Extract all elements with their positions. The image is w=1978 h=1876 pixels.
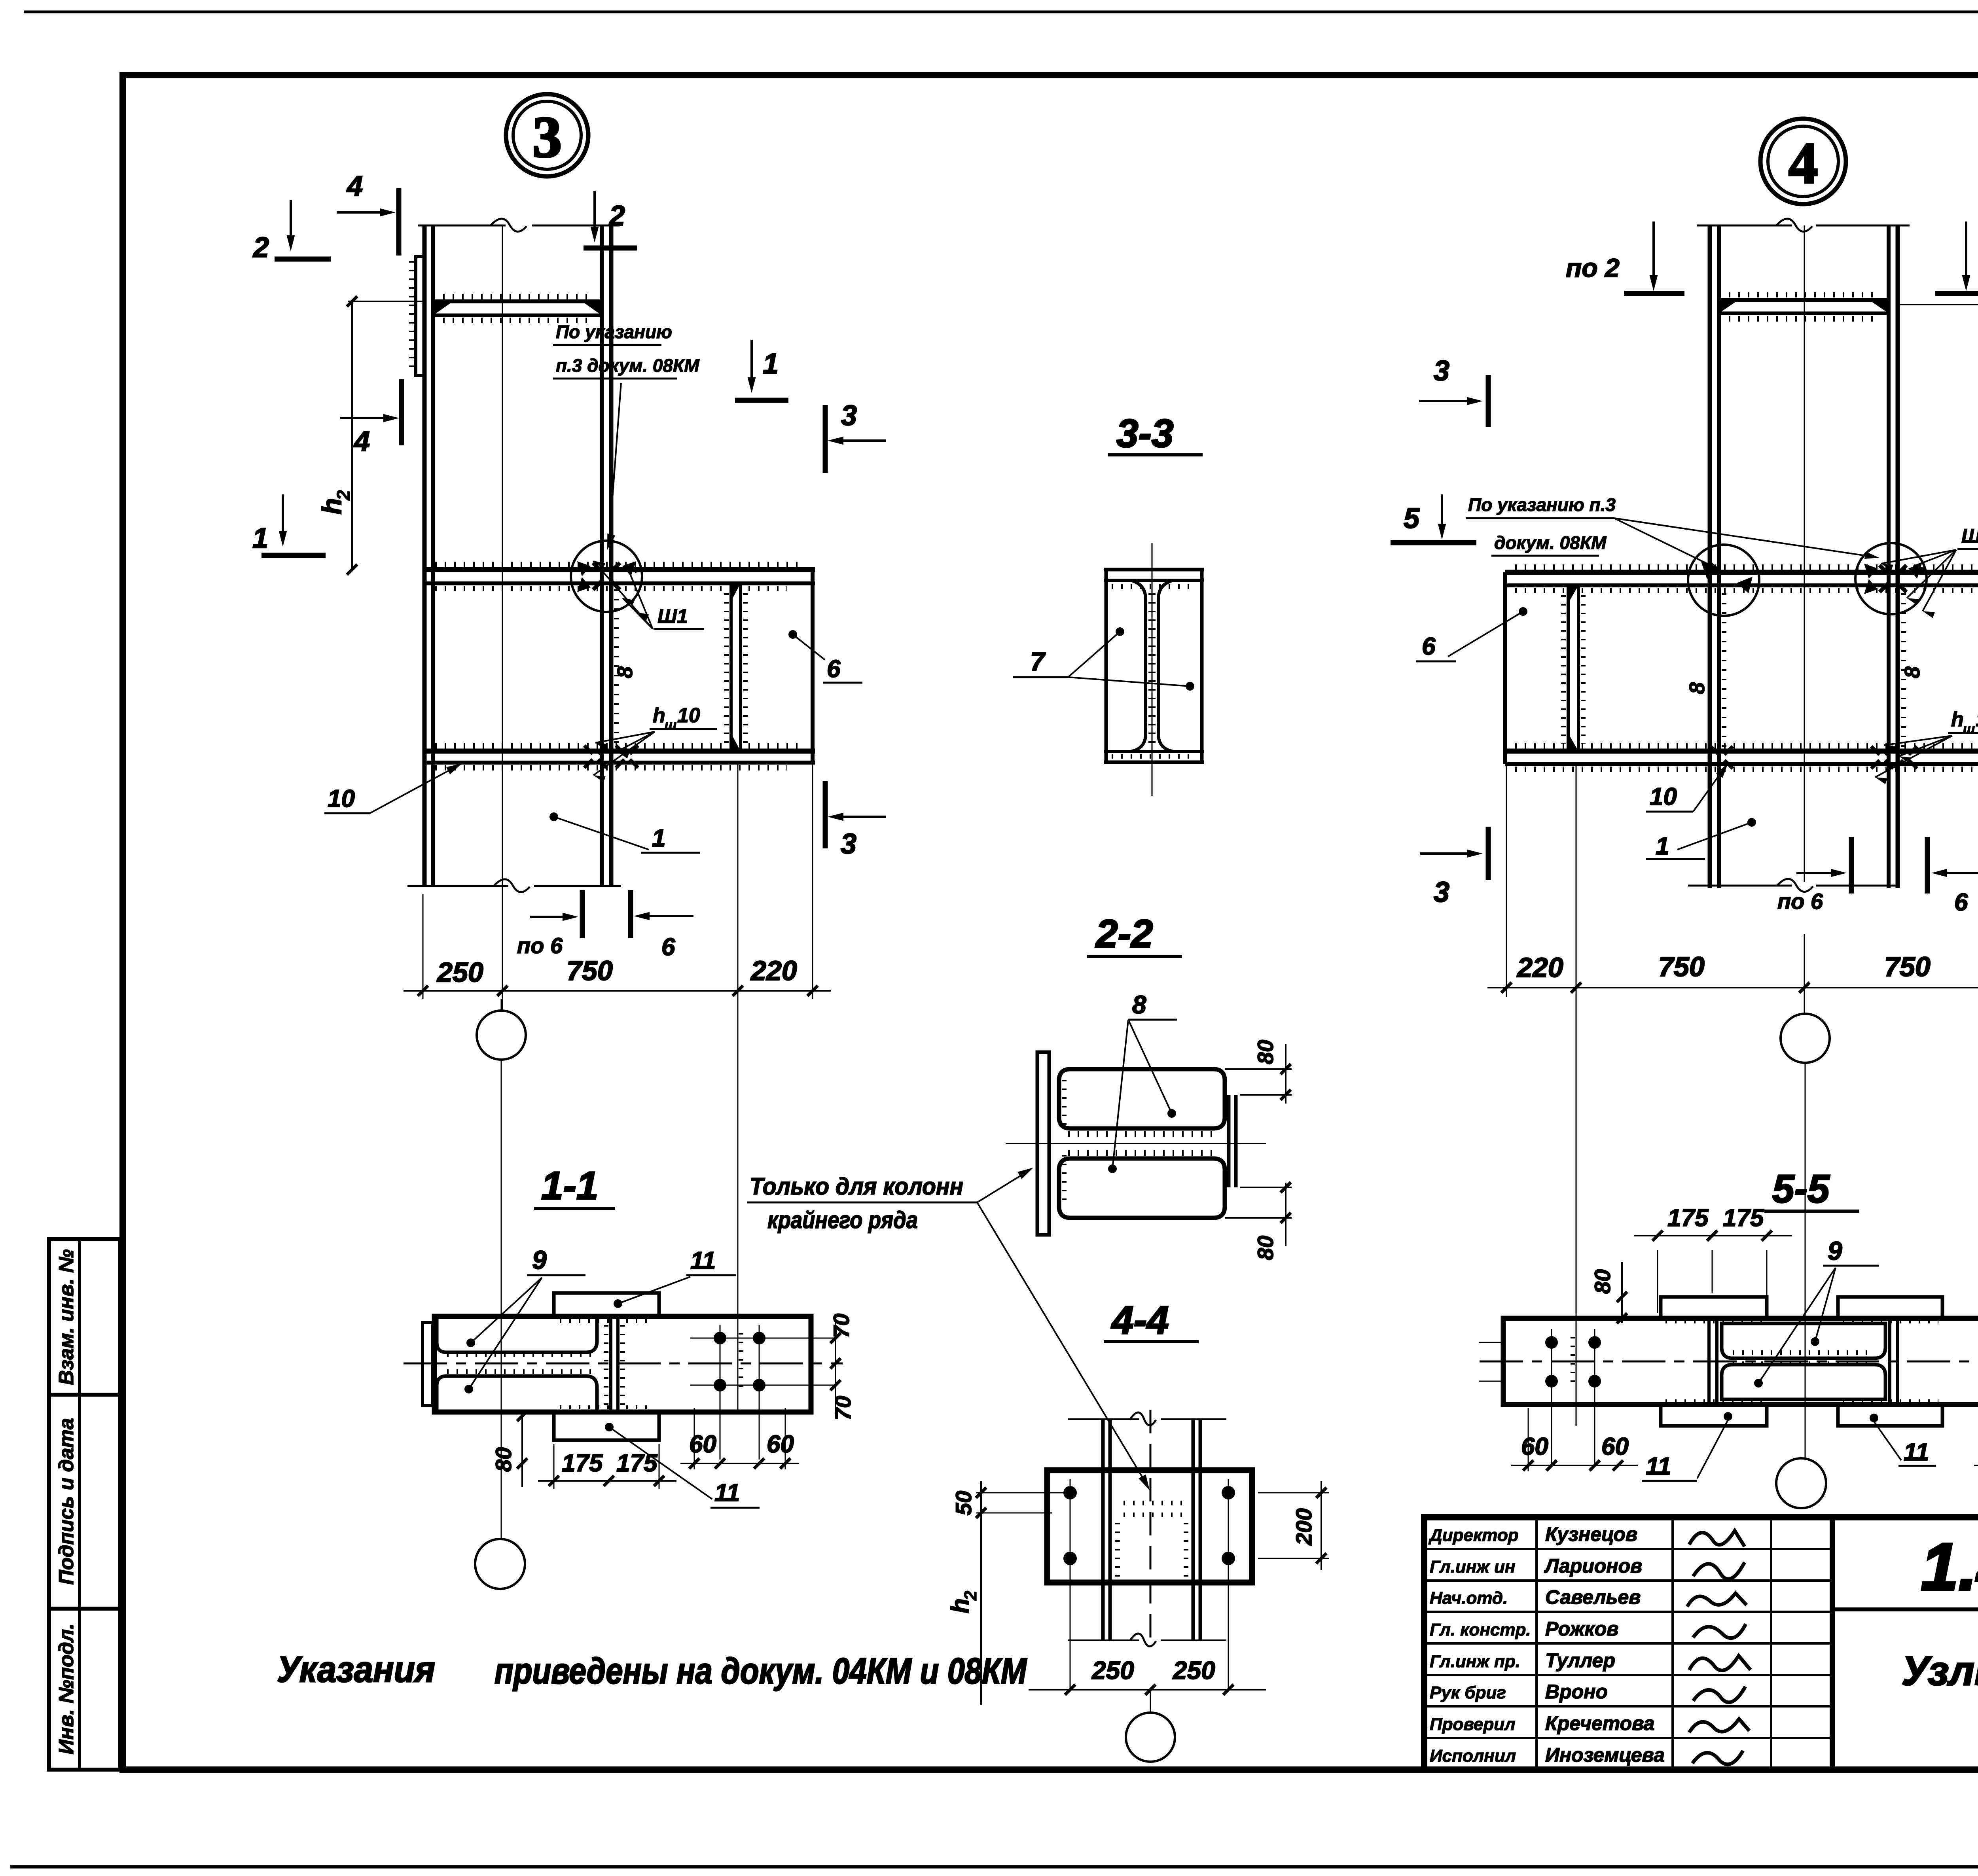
svg-text:11: 11 <box>690 1247 716 1274</box>
svg-text:11: 11 <box>714 1479 740 1507</box>
section 5-5 cover plates <box>1661 1297 1767 1318</box>
svg-text:10: 10 <box>677 704 700 727</box>
section 4-4 weld ticks <box>1124 1501 1183 1505</box>
svg-text:4: 4 <box>346 170 363 202</box>
node 3 cap plate on left flange <box>416 257 424 375</box>
node 4 left beam stiffener <box>1567 585 1570 751</box>
section 5-5 dim 80 <box>1621 1262 1623 1323</box>
svg-text:Проверил: Проверил <box>1430 1715 1515 1734</box>
node 4 weld crosses right junction <box>1879 565 1890 575</box>
svg-text:крайнего ряда: крайнего ряда <box>767 1207 918 1233</box>
node 3 upper stiffener <box>433 299 602 303</box>
node 3 beam bottom flange <box>424 749 815 754</box>
section 1-1 dims 70-70 right <box>835 1317 836 1412</box>
svg-text:50: 50 <box>951 1491 976 1515</box>
svg-text:3: 3 <box>841 828 856 860</box>
section 3-3 top flange plate <box>1104 568 1204 572</box>
node 4 mark 6 bottom <box>1936 872 1978 874</box>
svg-text:2: 2 <box>608 200 625 232</box>
svg-text:Указания: Указания <box>277 1649 435 1690</box>
node 3 mark 6 bottom <box>639 915 693 917</box>
svg-text:8: 8 <box>1900 666 1924 678</box>
section 5-5 bolt weld ticks <box>1571 1337 1575 1388</box>
section 1-1 bottom channel <box>437 1376 597 1410</box>
sheet bottom edge line <box>10 1865 1978 1868</box>
section 5-5 main bar <box>1503 1318 1978 1405</box>
svg-text:h: h <box>653 704 665 727</box>
section 4-4 dashed axis <box>1150 1410 1152 1645</box>
svg-text:10: 10 <box>328 785 355 812</box>
node 4 section mark 5 left <box>1441 494 1443 533</box>
svg-text:Инв. №подл.: Инв. №подл. <box>55 1623 78 1754</box>
node 4 weld crosses bottom left <box>1711 746 1719 755</box>
section 5-5 bolts left <box>1545 1336 1558 1349</box>
node 4 upper stiffener <box>1719 298 1889 302</box>
svg-text:по 6: по 6 <box>517 933 563 958</box>
svg-text:3: 3 <box>841 400 857 432</box>
svg-text:Рожков: Рожков <box>1545 1618 1618 1640</box>
node 3 h2 dimension line <box>351 301 353 570</box>
svg-text:Только для колонн: Только для колонн <box>750 1173 963 1200</box>
section 1-1 bolts <box>714 1332 726 1344</box>
node 3 beam end plate <box>811 570 815 764</box>
svg-text:220: 220 <box>750 955 797 986</box>
node 4 weld circle right <box>1855 543 1927 614</box>
svg-text:60: 60 <box>1601 1433 1629 1460</box>
title block outer border <box>1424 1517 1978 1770</box>
svg-text:70: 70 <box>829 1314 854 1338</box>
svg-text:6: 6 <box>827 655 841 683</box>
section 2-2 right plate <box>1227 1095 1231 1187</box>
section 3-3 left flange <box>1105 570 1108 762</box>
node 4 section mark 3 lower left <box>1420 852 1476 855</box>
section 5-5 dim 175-175 <box>1657 1250 1658 1313</box>
note tolko leader to 4-4 <box>977 1202 1147 1485</box>
svg-text:175: 175 <box>616 1450 658 1477</box>
svg-text:Рук бриг: Рук бриг <box>1430 1683 1506 1702</box>
svg-text:4-4: 4-4 <box>1111 1298 1169 1342</box>
node 4 beam top flange <box>1505 570 1978 575</box>
node 3 beam top flange <box>424 567 815 572</box>
svg-text:250: 250 <box>1173 1656 1215 1685</box>
title block row lines <box>1424 1548 1832 1550</box>
svg-text:8: 8 <box>613 666 637 678</box>
section 5-5 top channel <box>1722 1323 1885 1358</box>
node 4 section mark 3 top left <box>1419 400 1476 402</box>
section 4-4 dim 250-250 <box>1029 1689 1266 1690</box>
node 3 h2 text <box>317 490 354 515</box>
node 4 note leaders <box>1614 518 1718 569</box>
svg-text:11: 11 <box>1646 1453 1671 1480</box>
svg-text:п.3 докум. 08КМ: п.3 докум. 08КМ <box>556 355 700 376</box>
svg-text:220: 220 <box>1516 952 1563 983</box>
node 4 h2 extension line <box>1898 304 1978 305</box>
node 3 weld detail circle <box>571 541 642 612</box>
sheet top edge line <box>24 11 1978 13</box>
svg-text:По указанию: По указанию <box>556 322 672 342</box>
node 3 label 1 with leader <box>549 812 558 821</box>
svg-text:750: 750 <box>1658 951 1705 982</box>
svg-text:докум. 08КМ: докум. 08КМ <box>1494 532 1607 553</box>
svg-text:60: 60 <box>1521 1433 1548 1460</box>
svg-text:1: 1 <box>252 522 268 554</box>
note tolko leader to 2-2 <box>977 1171 1029 1202</box>
node 3 column right flange <box>600 225 604 886</box>
svg-text:9: 9 <box>532 1245 547 1274</box>
svg-text:Ш1: Ш1 <box>657 605 688 627</box>
node 3 section mark 2 right <box>593 191 596 236</box>
node 3 lower axis circle <box>475 1539 525 1589</box>
node 4 column axis <box>1804 225 1805 882</box>
svg-text:1-1: 1-1 <box>541 1164 599 1208</box>
svg-text:11: 11 <box>1904 1439 1929 1466</box>
section 3-3 bottom flange plate <box>1104 750 1204 753</box>
section 5-5 bottom circle <box>1776 1458 1826 1508</box>
node 3 column top break line <box>418 225 506 227</box>
svg-text:10: 10 <box>1650 783 1677 810</box>
section 1-1 cover plate top <box>554 1293 659 1316</box>
stamp column divider 1 <box>49 1393 120 1397</box>
section 5-5 dims 70-70 right <box>1479 1342 1503 1343</box>
stamp column divider 2 <box>49 1607 120 1611</box>
section 2-2 dim 80 top <box>1225 1068 1292 1070</box>
section 1-1 top channel <box>437 1319 597 1352</box>
node 3 column left flange <box>423 225 427 886</box>
section 2-2 left plate <box>1037 1052 1049 1235</box>
section 2-2 bottom channel <box>1059 1159 1225 1218</box>
svg-text:7: 7 <box>1030 647 1046 676</box>
svg-text:Гл. констр.: Гл. констр. <box>1430 1620 1531 1639</box>
node 4 bubble <box>1760 119 1846 204</box>
svg-text:ш: ш <box>665 717 676 733</box>
section 1-1 bolt weld ticks <box>739 1333 743 1392</box>
svg-text:2: 2 <box>961 1590 980 1601</box>
node 4 label 6 left <box>1519 607 1527 616</box>
svg-text:175: 175 <box>1723 1204 1764 1232</box>
node 3 grid axis circle <box>477 1011 526 1060</box>
svg-text:250: 250 <box>436 957 483 988</box>
section 2-2 top channel <box>1059 1069 1225 1128</box>
svg-text:60: 60 <box>689 1431 716 1458</box>
svg-text:Нач.отд.: Нач.отд. <box>1430 1588 1508 1608</box>
section 3-3 web pair <box>1131 580 1146 752</box>
svg-text:1.424.3-7.2- О6КМ: 1.424.3-7.2- О6КМ <box>1921 1530 1978 1605</box>
node 3 note leader <box>609 383 621 541</box>
section 5-5 dims 60-60 left <box>1528 1408 1529 1471</box>
svg-text:8: 8 <box>1685 682 1709 694</box>
node 4 column bottom break line <box>1688 885 1792 887</box>
section 1-1 main bar <box>434 1316 811 1412</box>
svg-text:4: 4 <box>1789 131 1818 196</box>
section 1-1 splice stiffener <box>609 1316 612 1412</box>
section 1-1 dim 80 <box>521 1414 523 1487</box>
node 3 section mark 3 upper right <box>833 439 886 442</box>
node 4 weld crosses bottom right <box>1871 746 1879 755</box>
section 1-1 dims 175-175 <box>553 1444 555 1489</box>
title block signatures <box>1689 1531 1745 1547</box>
svg-text:3-3: 3-3 <box>1116 411 1174 456</box>
node 4 axis continuation <box>1805 1063 1806 1458</box>
svg-text:6: 6 <box>661 933 675 961</box>
svg-text:750: 750 <box>566 955 613 986</box>
node 4 section mark po2 right <box>1965 221 1967 286</box>
svg-text:Ларионов: Ларионов <box>1544 1555 1642 1577</box>
node 3 beam stiffener <box>729 583 733 751</box>
section 1-1 dims 60-60 <box>694 1408 695 1469</box>
svg-text:2: 2 <box>333 490 354 501</box>
node 4 beam bottom flange <box>1505 749 1978 754</box>
svg-text:приведены на докум. 04КМ и: приведены на докум. 04КМ и 08КМ <box>494 1651 1027 1691</box>
svg-text:Подпись и дата: Подпись и дата <box>55 1418 78 1585</box>
node 3 label 6 with leader <box>788 630 797 639</box>
section 4-4 bottom break line <box>1068 1639 1139 1641</box>
svg-text:80: 80 <box>1253 1040 1278 1064</box>
section 4-4 bolts <box>1063 1486 1077 1499</box>
svg-text:по 2: по 2 <box>1566 253 1620 282</box>
svg-text:6: 6 <box>1954 889 1968 916</box>
node 4 weld circle left <box>1688 545 1759 616</box>
svg-text:По указанию п.3: По указанию п.3 <box>1468 494 1616 515</box>
section 5-5 splice plates right <box>1888 1318 1891 1405</box>
svg-text:Директор: Директор <box>1428 1526 1519 1545</box>
node 3 column axis <box>502 225 503 1010</box>
svg-text:по 6: по 6 <box>1777 889 1823 914</box>
svg-text:Кузнецов: Кузнецов <box>1545 1523 1637 1545</box>
svg-text:3: 3 <box>1434 355 1449 387</box>
node 4 column top break line <box>1697 225 1792 227</box>
svg-text:Гл.инж пр.: Гл.инж пр. <box>1430 1652 1520 1671</box>
node 4 label 1 <box>1747 818 1756 827</box>
svg-text:60: 60 <box>767 1431 794 1458</box>
svg-text:750: 750 <box>1884 951 1931 982</box>
stamp column outer box <box>49 1239 120 1770</box>
section 1-1 left end plate <box>423 1323 433 1406</box>
svg-text:Исполнил: Исполнил <box>1430 1746 1516 1766</box>
section 4-4 dim 50 left <box>976 1492 1064 1494</box>
node 3 mark po6 bottom <box>530 916 573 918</box>
svg-text:Иноземцева: Иноземцева <box>1545 1744 1665 1766</box>
title block line under number <box>1832 1607 1978 1611</box>
node 3 weld crosses top junction <box>593 563 602 572</box>
node 4 dimension line 220-750-750-220 <box>1506 764 1507 997</box>
section 4-4 dim h2 left <box>980 1525 982 1705</box>
node 4 column right flange <box>1887 225 1891 888</box>
svg-text:Ш1: Ш1 <box>1961 525 1978 547</box>
section 2-2 axis <box>1006 1143 1266 1144</box>
node 4 grid axis circle <box>1804 934 1805 1013</box>
svg-text:175: 175 <box>1667 1204 1709 1232</box>
section 5-5 bottom channel <box>1722 1365 1885 1399</box>
node 4 section mark po2 left <box>1652 221 1655 286</box>
svg-text:1: 1 <box>1656 833 1669 860</box>
svg-text:175: 175 <box>562 1450 603 1477</box>
section 4-4 dim 200 right <box>1258 1492 1329 1494</box>
svg-text:200: 200 <box>1291 1508 1316 1545</box>
svg-text:80: 80 <box>1253 1236 1278 1260</box>
stamp column divider vertical <box>78 1239 81 1770</box>
svg-text:ш: ш <box>1963 721 1975 736</box>
svg-text:10: 10 <box>1976 708 1978 731</box>
section 4-4 top break line <box>1068 1418 1139 1420</box>
svg-text:Туллер: Туллер <box>1545 1649 1615 1672</box>
node 3 stiffener axis line down <box>737 764 739 1412</box>
node 3 bubble <box>506 94 588 176</box>
node 3 axis continuation <box>501 1060 502 1539</box>
svg-text:3: 3 <box>532 105 562 170</box>
svg-text:Савельев: Савельев <box>1545 1586 1641 1608</box>
node 4 column left flange <box>1708 225 1712 888</box>
node 3 section mark 3 lower right <box>833 816 886 818</box>
svg-text:5: 5 <box>1404 503 1420 534</box>
svg-text:9: 9 <box>1828 1236 1842 1265</box>
svg-text:Узлы 3,4: Узлы 3,4 <box>1902 1648 1978 1694</box>
node 3 column bottom break line <box>407 885 508 887</box>
svg-text:80: 80 <box>1590 1269 1615 1294</box>
node 3 section mark 2 left <box>290 200 292 244</box>
section 4-4 plate <box>1047 1470 1252 1583</box>
node 4 beam left end plate <box>1503 572 1507 764</box>
section 5-5 splice plates left <box>1707 1318 1711 1405</box>
svg-text:1: 1 <box>763 348 779 380</box>
svg-text:1: 1 <box>652 825 665 852</box>
svg-text:2-2: 2-2 <box>1095 912 1153 956</box>
section 2-2 dim 80 bottom <box>1225 1217 1292 1219</box>
section 1-1 dashed axis <box>404 1363 843 1365</box>
svg-text:Взам. инв. №: Взам. инв. № <box>55 1249 78 1385</box>
section 4-4 axis circle <box>1150 1690 1151 1713</box>
title block column lines <box>1535 1517 1538 1770</box>
node 3 section mark 4 lower <box>340 417 393 419</box>
svg-text:Вроно: Вроно <box>1545 1681 1608 1703</box>
svg-text:2: 2 <box>252 232 269 263</box>
svg-text:h: h <box>1951 708 1964 731</box>
svg-text:3: 3 <box>1434 876 1449 908</box>
section 1-1 cover plate bottom <box>554 1412 659 1440</box>
node 3 section mark 1 right <box>750 340 753 386</box>
node 4 stiffener axis lines down <box>1576 764 1577 1426</box>
node 3 section mark 4 top <box>337 211 390 214</box>
svg-text:Кречетова: Кречетова <box>1545 1712 1655 1734</box>
svg-text:80: 80 <box>491 1447 516 1472</box>
svg-text:70: 70 <box>830 1396 855 1420</box>
node 3 dimension line 250-750-220 <box>423 894 424 999</box>
svg-text:8: 8 <box>1132 990 1146 1019</box>
section 3-3 right flange <box>1200 570 1204 762</box>
node 3 h2 extension line <box>348 301 424 302</box>
svg-text:250: 250 <box>1091 1656 1134 1685</box>
svg-text:4: 4 <box>353 426 370 457</box>
node 4 mark po6 bottom <box>1796 872 1842 874</box>
node 3 weld crosses bottom junction <box>584 746 593 754</box>
section 3-3 axis <box>1152 543 1153 796</box>
node 3 section mark 1 left <box>282 494 284 540</box>
svg-text:Гл.инж ин: Гл.инж ин <box>1430 1557 1515 1577</box>
svg-text:6: 6 <box>1422 633 1436 660</box>
svg-text:5-5: 5-5 <box>1772 1167 1830 1211</box>
section 5-5 dashed axis <box>1480 1361 1978 1363</box>
section 4-4 column flanges <box>1101 1419 1105 1640</box>
